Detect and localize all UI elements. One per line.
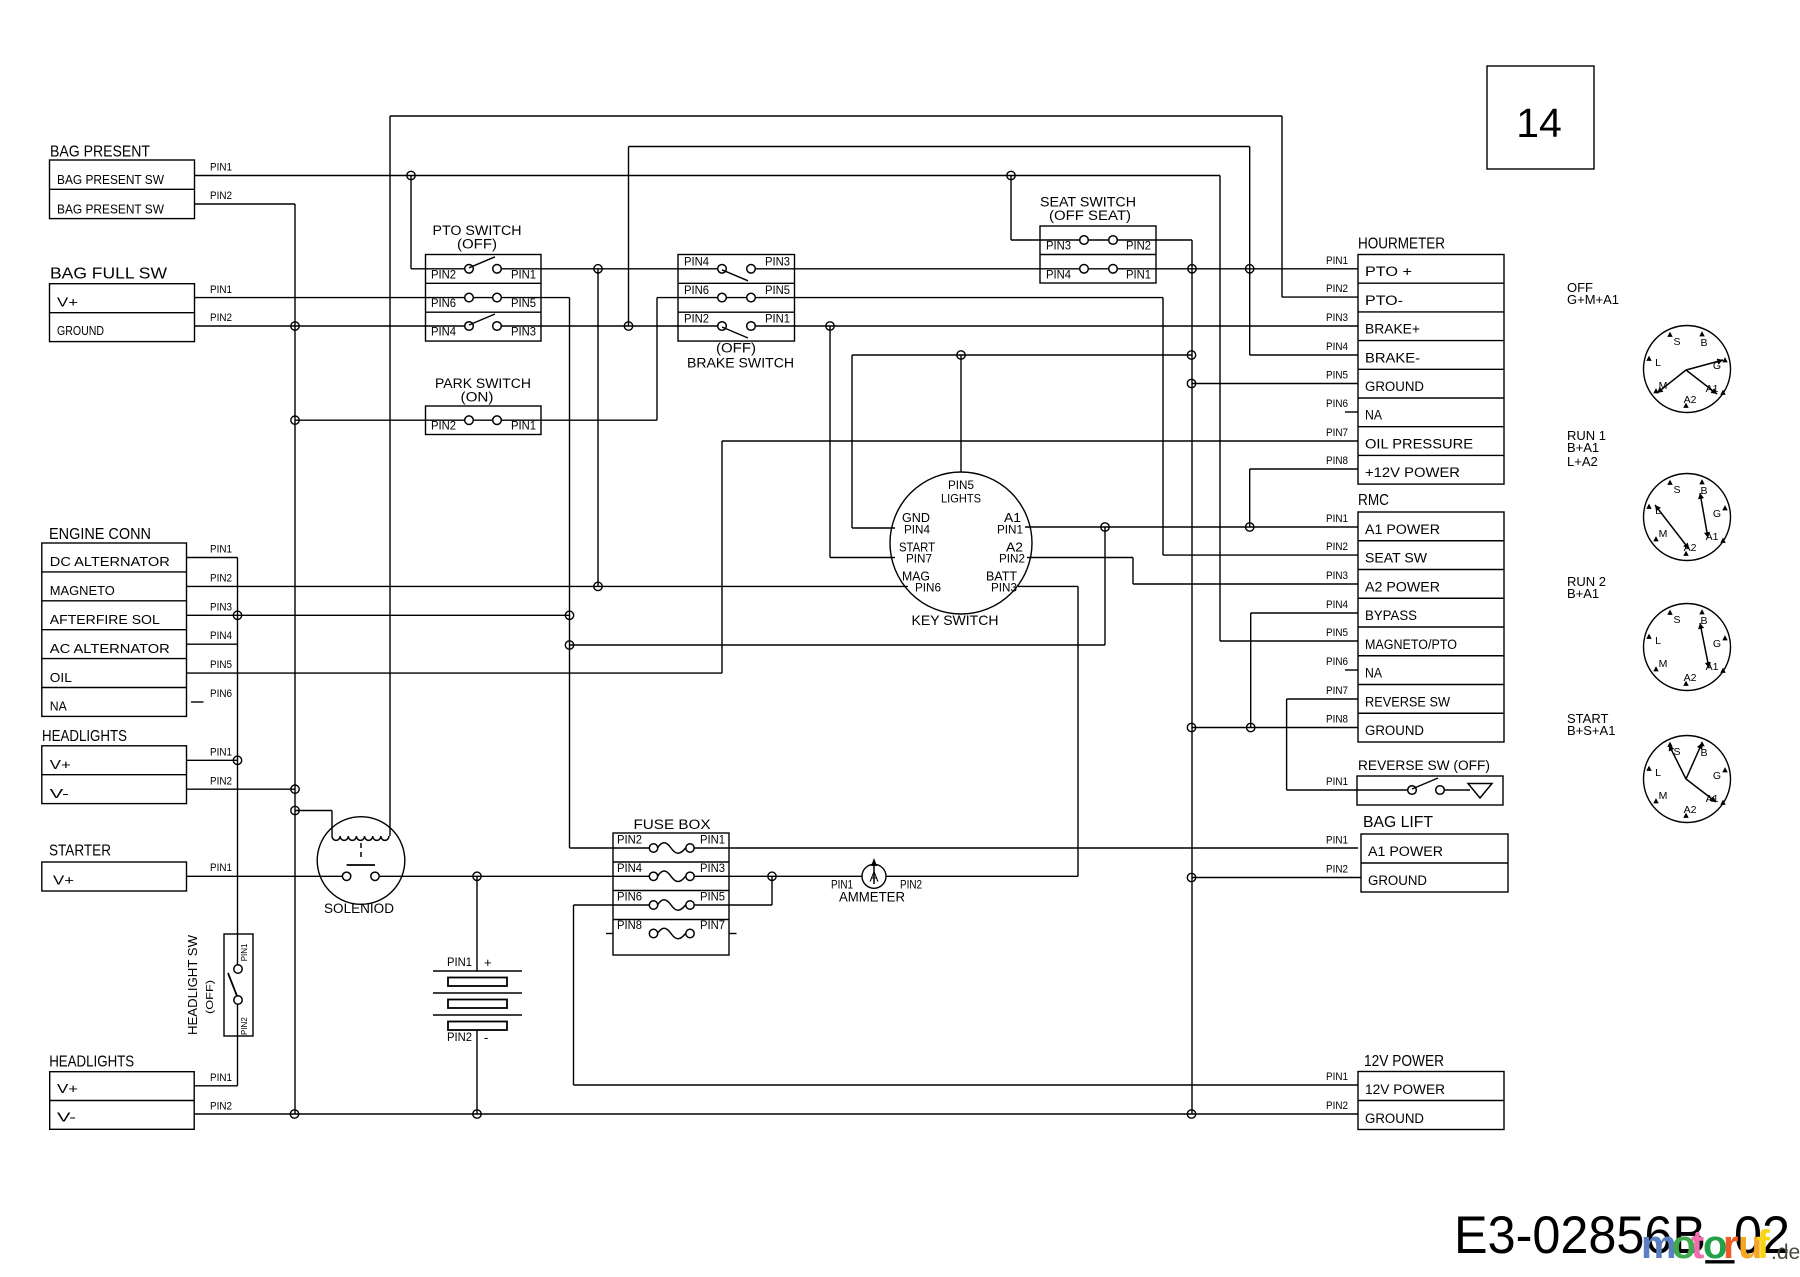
svg-text:AFTERFIRE SOL: AFTERFIRE SOL (50, 612, 160, 627)
svg-text:(ON): (ON) (461, 390, 494, 405)
svg-text:FUSE BOX: FUSE BOX (634, 817, 711, 832)
svg-text:MAGNETO: MAGNETO (50, 583, 115, 598)
svg-text:PIN4: PIN4 (1326, 341, 1348, 353)
svg-text:START: START (899, 541, 935, 555)
svg-text:PIN8: PIN8 (617, 920, 642, 932)
svg-text:(OFF): (OFF) (716, 341, 756, 356)
svg-text:PIN1: PIN1 (210, 1072, 232, 1084)
svg-text:PIN2: PIN2 (1326, 283, 1348, 295)
svg-text:PIN5: PIN5 (210, 659, 232, 671)
svg-text:PIN4: PIN4 (210, 630, 232, 642)
svg-text:PIN1: PIN1 (447, 957, 472, 969)
svg-text:PIN1: PIN1 (210, 862, 232, 874)
svg-text:PIN6: PIN6 (210, 688, 232, 700)
svg-text:BAG PRESENT: BAG PRESENT (50, 144, 150, 161)
svg-text:PIN1: PIN1 (1326, 513, 1348, 525)
svg-text:PIN7: PIN7 (906, 554, 932, 566)
svg-text:+: + (484, 955, 492, 970)
svg-text:PIN4: PIN4 (617, 863, 643, 875)
svg-text:L: L (1655, 635, 1661, 647)
svg-text:G: G (1713, 508, 1721, 520)
svg-text:PTO-: PTO- (1365, 293, 1403, 308)
svg-text:A2 POWER: A2 POWER (1365, 579, 1440, 594)
svg-text:V+: V+ (57, 294, 78, 309)
svg-text:PIN1: PIN1 (1326, 776, 1348, 788)
svg-text:A1 POWER: A1 POWER (1365, 522, 1440, 537)
svg-text:PIN2: PIN2 (1326, 541, 1348, 553)
svg-text:PIN2: PIN2 (210, 572, 232, 584)
svg-text:PIN1: PIN1 (511, 269, 536, 281)
svg-text:PIN2: PIN2 (240, 1017, 249, 1035)
svg-text:PIN2: PIN2 (617, 835, 642, 847)
svg-text:GROUND: GROUND (1365, 1111, 1424, 1126)
svg-text:SOLENIOD: SOLENIOD (324, 901, 394, 916)
svg-text:PIN1: PIN1 (210, 544, 232, 556)
svg-text:PIN1: PIN1 (511, 421, 536, 433)
svg-text:PIN2: PIN2 (210, 1100, 232, 1112)
svg-text:PIN3: PIN3 (210, 601, 232, 613)
svg-text:PIN1: PIN1 (765, 314, 790, 326)
svg-text:S: S (1673, 484, 1680, 496)
svg-text:PIN5: PIN5 (1326, 370, 1348, 382)
svg-text:S: S (1673, 614, 1680, 626)
svg-text:HEADLIGHTS: HEADLIGHTS (49, 1054, 134, 1071)
svg-text:PIN6: PIN6 (915, 583, 941, 595)
svg-text:BRAKE+: BRAKE+ (1365, 322, 1420, 337)
svg-text:PIN2: PIN2 (447, 1032, 472, 1044)
svg-text:B+S+A1: B+S+A1 (1567, 723, 1615, 738)
svg-text:SEAT SW: SEAT SW (1365, 551, 1427, 566)
svg-text:V-: V- (50, 786, 69, 801)
svg-text:PIN3: PIN3 (1326, 312, 1348, 324)
svg-text:PIN4: PIN4 (904, 525, 931, 537)
svg-text:BAG PRESENT SW: BAG PRESENT SW (57, 201, 165, 216)
svg-text:(OFF SEAT): (OFF SEAT) (1049, 208, 1131, 223)
svg-text:(OFF): (OFF) (204, 980, 216, 1014)
svg-text:PIN2: PIN2 (210, 190, 232, 202)
svg-text:PIN3: PIN3 (765, 256, 790, 268)
svg-text:-: - (484, 1030, 488, 1045)
svg-text:NA: NA (50, 699, 67, 714)
svg-text:PIN4: PIN4 (431, 327, 457, 339)
svg-text:S: S (1673, 336, 1680, 348)
svg-text:AMMETER: AMMETER (839, 890, 905, 905)
svg-text:HOURMETER: HOURMETER (1358, 236, 1445, 253)
svg-text:PIN7: PIN7 (700, 920, 725, 932)
svg-text:12V POWER: 12V POWER (1364, 1053, 1444, 1070)
svg-text:r: r (1723, 1223, 1739, 1267)
svg-text:RMC: RMC (1358, 492, 1389, 509)
svg-text:GROUND: GROUND (1368, 873, 1427, 888)
svg-text:PIN8: PIN8 (1326, 714, 1348, 726)
svg-text:PIN1: PIN1 (1326, 255, 1348, 267)
svg-text:PIN1: PIN1 (210, 162, 232, 174)
svg-text:PIN1: PIN1 (1126, 269, 1151, 281)
svg-text:G: G (1713, 638, 1721, 650)
svg-text:REVERSE SW (OFF): REVERSE SW (OFF) (1358, 758, 1490, 773)
svg-text:PIN1: PIN1 (1326, 1071, 1348, 1083)
svg-text:PIN6: PIN6 (684, 285, 709, 297)
svg-text:+12V POWER: +12V POWER (1365, 465, 1460, 480)
svg-text:BRAKE-: BRAKE- (1365, 350, 1420, 365)
svg-text:PIN6: PIN6 (1326, 398, 1348, 410)
svg-text:BRAKE SWITCH: BRAKE SWITCH (687, 356, 794, 371)
svg-text:PIN6: PIN6 (1326, 656, 1348, 668)
svg-text:L+A2: L+A2 (1567, 454, 1598, 469)
svg-text:PIN1: PIN1 (210, 747, 232, 759)
svg-text:PIN4: PIN4 (1326, 599, 1348, 611)
svg-text:BATT: BATT (986, 570, 1017, 584)
svg-text:HEADLIGHT SW: HEADLIGHT SW (186, 935, 200, 1035)
svg-text:PIN8: PIN8 (1326, 455, 1348, 467)
svg-text:PIN4: PIN4 (1046, 269, 1072, 281)
svg-text:PIN7: PIN7 (1326, 685, 1348, 697)
svg-text:OIL PRESSURE: OIL PRESSURE (1365, 436, 1473, 451)
svg-text:NA: NA (1365, 666, 1382, 681)
svg-text:PIN1: PIN1 (210, 284, 232, 296)
svg-text:(OFF): (OFF) (457, 237, 497, 252)
svg-text:PIN3: PIN3 (1326, 570, 1348, 582)
svg-text:V+: V+ (50, 757, 71, 772)
svg-text:V-: V- (57, 1110, 76, 1125)
svg-text:GROUND: GROUND (57, 323, 104, 338)
svg-text:BYPASS: BYPASS (1365, 608, 1417, 623)
svg-text:PIN2: PIN2 (1326, 864, 1348, 876)
svg-text:V+: V+ (53, 873, 74, 888)
svg-text:BAG PRESENT SW: BAG PRESENT SW (57, 172, 165, 187)
svg-text:PIN5: PIN5 (1326, 627, 1348, 639)
svg-text:PIN3: PIN3 (700, 863, 725, 875)
svg-text:PTO +: PTO + (1365, 264, 1412, 279)
svg-text:V+: V+ (57, 1081, 78, 1096)
svg-text:ENGINE CONN: ENGINE CONN (49, 526, 151, 543)
svg-text:G: G (1713, 770, 1721, 782)
svg-text:f: f (1757, 1223, 1771, 1267)
svg-text:M: M (1659, 790, 1668, 802)
svg-text:PIN6: PIN6 (431, 298, 456, 310)
svg-text:B+A1: B+A1 (1567, 586, 1599, 601)
svg-text:A1 POWER: A1 POWER (1368, 844, 1443, 859)
svg-text:LIGHTS: LIGHTS (941, 492, 981, 506)
svg-text:NA: NA (1365, 408, 1382, 423)
svg-text:M: M (1659, 658, 1668, 670)
svg-text:PIN5: PIN5 (948, 478, 974, 492)
svg-text:MAGNETO/PTO: MAGNETO/PTO (1365, 637, 1457, 652)
svg-text:L: L (1655, 357, 1661, 369)
svg-text:PIN2: PIN2 (1126, 241, 1151, 253)
svg-text:PIN2: PIN2 (210, 312, 232, 324)
svg-text:PIN1: PIN1 (997, 525, 1023, 537)
svg-text:PIN1: PIN1 (700, 835, 725, 847)
svg-text:B: B (1700, 337, 1707, 349)
svg-text:12V POWER: 12V POWER (1365, 1082, 1445, 1097)
svg-text:KEY SWITCH: KEY SWITCH (912, 612, 999, 628)
svg-text:PIN3: PIN3 (1046, 241, 1071, 253)
svg-text:PIN2: PIN2 (431, 269, 456, 281)
svg-text:GROUND: GROUND (1365, 723, 1424, 738)
svg-text:AC ALTERNATOR: AC ALTERNATOR (50, 641, 170, 656)
svg-text:A1: A1 (1004, 511, 1021, 525)
svg-text:PIN5: PIN5 (511, 298, 536, 310)
svg-text:PIN1: PIN1 (1326, 835, 1348, 847)
svg-text:PIN3: PIN3 (511, 327, 536, 339)
svg-text:PIN5: PIN5 (765, 285, 790, 297)
svg-text:PIN7: PIN7 (1326, 427, 1348, 439)
svg-text:PIN2: PIN2 (684, 314, 709, 326)
svg-text:GROUND: GROUND (1365, 379, 1424, 394)
svg-text:PIN6: PIN6 (617, 892, 642, 904)
svg-text:GND: GND (902, 511, 930, 525)
svg-text:STARTER: STARTER (49, 843, 111, 860)
svg-text:PIN2: PIN2 (431, 421, 456, 433)
svg-text:PIN1: PIN1 (240, 943, 249, 961)
svg-text:L: L (1655, 767, 1661, 779)
svg-text:BAG LIFT: BAG LIFT (1363, 814, 1434, 831)
svg-text:MAG: MAG (902, 570, 930, 584)
svg-text:PIN5: PIN5 (700, 892, 725, 904)
svg-text:BAG FULL SW: BAG FULL SW (50, 265, 167, 282)
svg-text:PIN2: PIN2 (999, 554, 1025, 566)
svg-text:B+A1: B+A1 (1567, 440, 1599, 455)
svg-text:PIN4: PIN4 (684, 256, 710, 268)
svg-text:REVERSE SW: REVERSE SW (1365, 694, 1450, 709)
svg-text:M: M (1659, 528, 1668, 540)
svg-text:HEADLIGHTS: HEADLIGHTS (42, 728, 127, 745)
svg-text:PIN2: PIN2 (1326, 1100, 1348, 1112)
svg-text:OIL: OIL (50, 670, 72, 685)
svg-text:14: 14 (1516, 100, 1562, 146)
svg-text:PIN3: PIN3 (991, 583, 1017, 595)
svg-text:.de: .de (1771, 1241, 1800, 1264)
svg-text:DC ALTERNATOR: DC ALTERNATOR (50, 554, 170, 569)
svg-text:PIN2: PIN2 (210, 776, 232, 788)
svg-text:G+M+A1: G+M+A1 (1567, 292, 1619, 307)
svg-text:A2: A2 (1006, 541, 1023, 555)
